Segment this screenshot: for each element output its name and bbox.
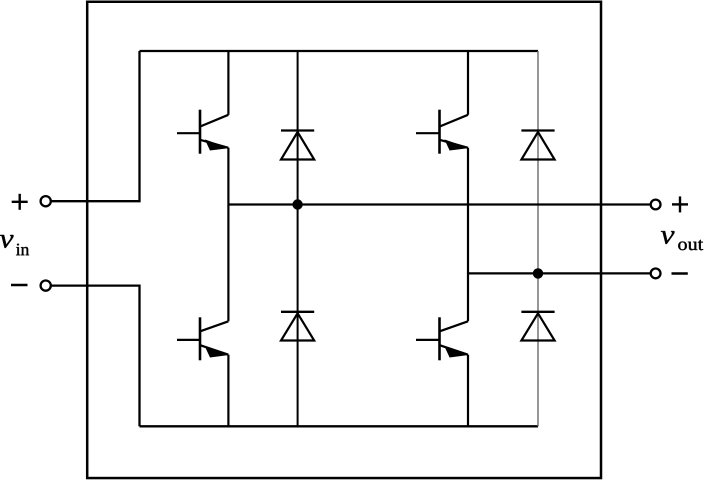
diode D2 (lower left, pointing up) [281, 312, 314, 341]
wire: + input lead from terminal up to top rail [51, 51, 140, 201]
wire: collector of Q3 to top rail [467, 51, 469, 115]
wire: emitter of Q3 down through output node to collector of Q4 [467, 148, 469, 321]
label: v_out [661, 231, 703, 250]
wire: right leg midpoint to - output terminal [468, 272, 651, 274]
input + terminal [41, 196, 51, 206]
transistor Q2 (lower left BJT) [177, 317, 228, 360]
label: output + polarity sign [672, 196, 688, 212]
output - terminal [651, 269, 661, 279]
outer enclosure box [87, 2, 601, 478]
label: v_in [0, 235, 29, 255]
label: input + polarity sign [12, 194, 28, 210]
wire: collector of Q1 to top rail [227, 51, 229, 115]
diode D4 (lower right, pointing up) [521, 312, 554, 341]
input - terminal [41, 281, 51, 291]
wire: - input lead from terminal down to bottom rail [51, 286, 140, 427]
diode D1 (upper left, pointing up) [281, 131, 314, 160]
wire: right diode branch vertical (thin) [537, 51, 539, 426]
transistor Q4 (lower right BJT) [416, 317, 468, 360]
transistor Q3 (upper right BJT) [416, 110, 468, 154]
junction node A (left diode branch to + output line) [292, 199, 302, 209]
transistor Q1 (upper left BJT) [177, 110, 228, 154]
label: input - polarity sign [11, 284, 28, 287]
wire: emitter of Q4 to bottom rail [467, 355, 469, 427]
wire: emitter of Q2 to bottom rail [227, 355, 229, 427]
diode D3 (upper right, pointing up) [521, 131, 554, 160]
wire: top rail of bridge [140, 50, 539, 52]
output + terminal [651, 200, 661, 210]
wire: left diode branch vertical [297, 51, 299, 426]
label: output - polarity sign [672, 272, 688, 275]
junction node B (right diode branch to - output line) [533, 268, 543, 278]
wire: emitter of Q1 down through output node to collector of Q2 [227, 148, 229, 321]
wire: left leg midpoint to + output terminal [228, 203, 650, 205]
wire: bottom rail of bridge [140, 425, 539, 427]
